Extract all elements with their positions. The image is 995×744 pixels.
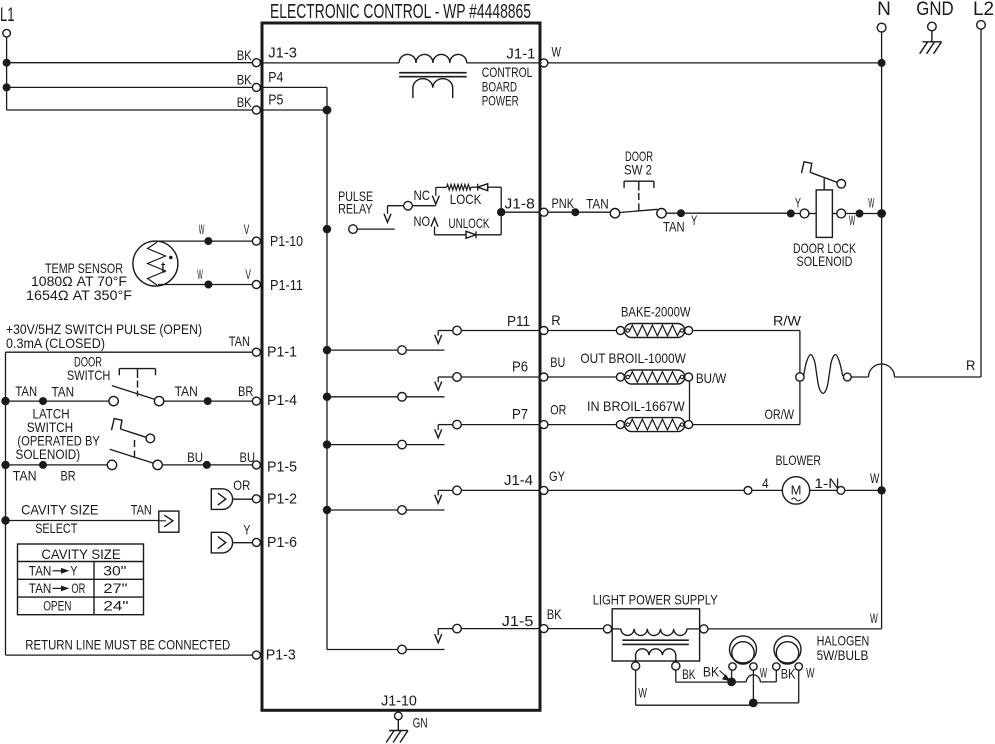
svg-text:GN: GN bbox=[413, 715, 428, 731]
svg-text:P1-1: P1-1 bbox=[267, 344, 297, 361]
svg-text:OR: OR bbox=[233, 477, 250, 493]
blower motor bbox=[752, 452, 886, 504]
pulse relay actuator arrow bbox=[384, 206, 391, 223]
terminal L1 bbox=[0, 5, 15, 37]
wire BU to out broil bbox=[548, 354, 617, 377]
svg-text:BU/W: BU/W bbox=[696, 370, 727, 386]
wire W secondary left bbox=[636, 670, 758, 707]
heating element IN BROIL-1667W bbox=[587, 398, 693, 432]
label LOCK bbox=[450, 191, 482, 207]
latch switch lever bbox=[112, 419, 155, 458]
svg-text:CAVITY SIZE: CAVITY SIZE bbox=[41, 546, 120, 562]
svg-text:SWITCH: SWITCH bbox=[67, 367, 110, 383]
door switch SW2 bracket bbox=[624, 181, 654, 210]
svg-text:RELAY: RELAY bbox=[338, 200, 373, 216]
pin J1-8 bbox=[505, 196, 548, 217]
contact NO bbox=[414, 213, 439, 235]
svg-text:P1-3: P1-3 bbox=[266, 646, 296, 663]
svg-text:W: W bbox=[197, 266, 203, 282]
label switch pulse bbox=[6, 321, 202, 351]
svg-text:OR: OR bbox=[71, 581, 85, 596]
svg-text:P1-6: P1-6 bbox=[267, 534, 297, 551]
svg-text:W: W bbox=[552, 44, 562, 60]
svg-text:J1-5: J1-5 bbox=[502, 613, 534, 630]
svg-text:30": 30" bbox=[103, 562, 126, 578]
transformer T1 core bbox=[399, 73, 467, 77]
pulse relay contact bbox=[323, 225, 395, 234]
svg-text:TAN: TAN bbox=[229, 333, 250, 349]
svg-text:BR: BR bbox=[61, 467, 76, 483]
svg-text:TAN: TAN bbox=[15, 383, 37, 399]
svg-text:BU: BU bbox=[240, 449, 256, 465]
label BK with arrow bbox=[703, 664, 731, 682]
svg-text:N: N bbox=[877, 0, 891, 20]
transformer T1 secondary bbox=[413, 79, 453, 98]
label DOOR LOCK SOLENOID bbox=[793, 240, 856, 269]
label UNLOCK bbox=[449, 215, 490, 231]
svg-text:P1-4: P1-4 bbox=[267, 392, 297, 409]
pin P6 bbox=[512, 359, 548, 382]
wire BK secondary right bbox=[676, 666, 728, 682]
resistor lock coil bbox=[447, 184, 471, 190]
svg-text:R/W: R/W bbox=[773, 313, 802, 329]
svg-text:SW 2: SW 2 bbox=[624, 161, 652, 177]
wire in broil to corner OR/W bbox=[693, 406, 800, 425]
svg-text:P1-5: P1-5 bbox=[267, 459, 297, 476]
pin J1-4 bbox=[504, 472, 548, 495]
diode unlock bbox=[466, 231, 476, 238]
wire bake to R/W corner bbox=[693, 313, 802, 331]
pin J1-1 bbox=[506, 45, 548, 67]
svg-text:L2: L2 bbox=[973, 0, 994, 20]
svg-text:V: V bbox=[244, 221, 250, 237]
door lock solenoid plunger bbox=[802, 162, 846, 190]
svg-text:V: V bbox=[245, 266, 251, 282]
label RETURN LINE bbox=[25, 636, 230, 652]
wire TAN Y after SW2 bbox=[663, 209, 791, 234]
transformer T1 primary with J1-3 line bbox=[260, 54, 542, 62]
door switch bbox=[1, 383, 253, 406]
svg-text:P1-2: P1-2 bbox=[267, 491, 297, 508]
svg-text:Y: Y bbox=[691, 212, 698, 228]
relay contact K3 to P7 bbox=[323, 420, 540, 449]
wire unlock rail bbox=[435, 216, 502, 235]
svg-text:24": 24" bbox=[103, 598, 128, 614]
wire cavity select bbox=[1, 516, 159, 524]
svg-text:BK: BK bbox=[237, 47, 253, 63]
svg-text:Y: Y bbox=[795, 195, 802, 211]
contact NC bbox=[414, 187, 440, 204]
svg-text:SELECT: SELECT bbox=[35, 520, 78, 536]
wire flexible squiggle bbox=[804, 354, 843, 393]
svg-text:OR: OR bbox=[550, 402, 566, 418]
control box ELECTRONIC CONTROL bbox=[262, 23, 540, 710]
wire bulb1 left lead bbox=[731, 670, 733, 682]
title label bbox=[270, 1, 531, 23]
svg-text:BU: BU bbox=[550, 354, 565, 370]
wire out broil down link bbox=[689, 381, 691, 421]
wire PNK bbox=[548, 195, 610, 216]
splice element common bbox=[796, 373, 804, 381]
svg-text:P1-10: P1-10 bbox=[270, 233, 303, 250]
connector arrow box Y to P1-6 bbox=[211, 522, 252, 553]
svg-text:BK: BK bbox=[682, 666, 696, 682]
light power supply transformer T2 bbox=[593, 591, 719, 670]
pin P1-11 bbox=[252, 277, 303, 294]
latch switch bbox=[1, 449, 255, 483]
svg-text:P11: P11 bbox=[507, 313, 530, 330]
door lock solenoid bbox=[787, 190, 846, 238]
wire T2 primary to N bbox=[700, 610, 882, 633]
wire return to P1-3 bbox=[6, 654, 253, 656]
ground chassis symbol GN bbox=[386, 720, 408, 743]
svg-text:BK: BK bbox=[703, 664, 720, 680]
svg-text:OPEN: OPEN bbox=[43, 599, 71, 614]
svg-text:1654Ω AT 350°F: 1654Ω AT 350°F bbox=[26, 287, 132, 303]
svg-text:TAN: TAN bbox=[586, 195, 609, 211]
door switch SW2 bbox=[610, 209, 666, 218]
svg-text:LIGHT POWER SUPPLY: LIGHT POWER SUPPLY bbox=[593, 591, 719, 607]
svg-text:CAVITY SIZE: CAVITY SIZE bbox=[21, 502, 98, 518]
svg-text:BU: BU bbox=[187, 449, 203, 465]
svg-text:J1-4: J1-4 bbox=[504, 472, 533, 489]
svg-text:W: W bbox=[868, 195, 874, 211]
svg-text:W: W bbox=[849, 212, 856, 228]
svg-text:R: R bbox=[551, 312, 560, 328]
svg-text:P1-11: P1-11 bbox=[270, 277, 303, 294]
pin P11 bbox=[507, 313, 548, 335]
pulse relay common wire bbox=[388, 201, 436, 210]
wire GN J1-10 bbox=[413, 715, 428, 731]
svg-text:R: R bbox=[966, 357, 975, 373]
svg-text:BK: BK bbox=[237, 72, 253, 88]
wire bulb2 right lead W bbox=[753, 670, 798, 703]
relay contact K5 to J1-5 bbox=[327, 624, 540, 654]
label HALOGEN 5W/BULB bbox=[817, 633, 870, 663]
wire BK chain with hump bbox=[732, 664, 815, 682]
terminal N bbox=[877, 0, 891, 32]
pin P1-5 bbox=[252, 459, 297, 476]
svg-text:W: W bbox=[806, 664, 815, 680]
wire bulb1 right lead W bbox=[752, 670, 754, 703]
svg-text:LOCK: LOCK bbox=[450, 191, 482, 207]
svg-text:RETURN LINE MUST BE CONNECTED: RETURN LINE MUST BE CONNECTED bbox=[25, 636, 230, 652]
svg-text:J1-8: J1-8 bbox=[505, 196, 535, 213]
svg-text:ELECTRONIC CONTROL - WP #44488: ELECTRONIC CONTROL - WP #4448865 bbox=[270, 1, 531, 23]
wire TAN to P1-1 bbox=[6, 333, 253, 655]
svg-text:TAN: TAN bbox=[29, 581, 52, 596]
svg-text:OR/W: OR/W bbox=[765, 406, 795, 422]
pin P5 bbox=[252, 92, 283, 114]
svg-text:OUT BROIL-1000W: OUT BROIL-1000W bbox=[580, 350, 686, 366]
wire to L2 with crossover hump bbox=[851, 357, 981, 377]
label LATCH SWITCH block bbox=[16, 406, 101, 463]
splice squiggle right bbox=[843, 373, 851, 381]
svg-text:L1: L1 bbox=[0, 5, 15, 26]
svg-text:P6: P6 bbox=[512, 359, 528, 376]
svg-text:J1-10: J1-10 bbox=[381, 692, 417, 709]
svg-text:W: W bbox=[199, 221, 205, 237]
svg-text:27": 27" bbox=[103, 580, 127, 596]
heating element BAKE-2000W bbox=[616, 304, 692, 338]
svg-text:t: t bbox=[161, 260, 166, 277]
svg-text:0.3mA (CLOSED): 0.3mA (CLOSED) bbox=[6, 335, 105, 351]
svg-text:PNK: PNK bbox=[552, 195, 575, 211]
pin P1-1 bbox=[252, 344, 297, 361]
label DOOR SWITCH bbox=[67, 354, 110, 383]
svg-text:1-N: 1-N bbox=[814, 475, 839, 491]
pin P1-4 bbox=[252, 392, 297, 409]
wire N vertical bbox=[878, 32, 886, 629]
svg-text:5W/BULB: 5W/BULB bbox=[817, 647, 869, 663]
junction J1-8 bbox=[497, 208, 540, 216]
svg-text:IN BROIL-1667W: IN BROIL-1667W bbox=[587, 398, 685, 414]
wire R to bake bbox=[548, 312, 617, 331]
junction bulb BK bbox=[727, 678, 736, 687]
svg-text:TAN: TAN bbox=[52, 383, 75, 399]
wire W J1-1 to N bbox=[548, 44, 882, 63]
heating element OUT BROIL-1000W bbox=[580, 350, 692, 384]
cavity size table bbox=[18, 544, 144, 615]
halogen bulb 2 bbox=[773, 636, 803, 670]
svg-text:W: W bbox=[870, 610, 878, 626]
connector arrow box OR to P1-2 bbox=[211, 477, 252, 509]
relay contact K1 to P11 bbox=[323, 326, 540, 354]
svg-text:TAN: TAN bbox=[29, 563, 52, 578]
svg-text:J1-1: J1-1 bbox=[506, 45, 535, 62]
terminal GND bbox=[916, 0, 953, 42]
svg-text:Y: Y bbox=[70, 563, 77, 578]
svg-text:BR: BR bbox=[238, 383, 253, 399]
wire L1 vertical bbox=[6, 37, 8, 110]
diode lock bbox=[478, 184, 488, 191]
label TEMP SENSOR block bbox=[26, 260, 132, 303]
pin J1-10 bbox=[381, 692, 417, 719]
svg-text:NC: NC bbox=[414, 187, 431, 203]
label CONTROL BOARD POWER bbox=[482, 64, 533, 108]
door switch bracket bbox=[119, 369, 155, 397]
svg-text:4: 4 bbox=[762, 475, 769, 491]
terminal L2 bbox=[973, 0, 994, 29]
pin P1-3 bbox=[252, 646, 295, 663]
svg-text:NO: NO bbox=[414, 213, 431, 229]
pin P1-2 bbox=[252, 491, 297, 508]
svg-text:P4: P4 bbox=[268, 69, 283, 86]
wire internal bus from P4 bbox=[260, 87, 327, 649]
label PULSE RELAY bbox=[338, 188, 373, 216]
pin J1-3 bbox=[252, 44, 297, 66]
relay contact K4 to J1-4 bbox=[323, 486, 540, 514]
svg-text:W: W bbox=[638, 685, 647, 701]
svg-text:M: M bbox=[791, 483, 802, 498]
svg-text:TAN: TAN bbox=[663, 218, 685, 234]
relay contact K2 to P6 bbox=[323, 373, 540, 401]
ground chassis symbol GND bbox=[920, 42, 942, 54]
wire BK J1-5 bbox=[547, 606, 604, 629]
svg-text:GND: GND bbox=[916, 0, 953, 20]
svg-text:BK: BK bbox=[547, 606, 562, 622]
cavity select arrow box bbox=[159, 511, 179, 532]
svg-text:GY: GY bbox=[549, 468, 566, 484]
svg-text:W: W bbox=[760, 664, 768, 680]
pin P1-10 bbox=[252, 233, 303, 250]
temp sensor bbox=[133, 241, 178, 286]
wire OR to in broil bbox=[548, 402, 617, 425]
wire W V to P1-10 bbox=[156, 221, 252, 245]
svg-text:BK: BK bbox=[237, 94, 253, 110]
svg-text:BK: BK bbox=[781, 665, 796, 681]
wire W solenoid to N bbox=[846, 195, 886, 229]
halogen bulb 1 bbox=[729, 636, 757, 670]
wire element common vertical bbox=[799, 331, 801, 425]
svg-text:POWER: POWER bbox=[482, 92, 519, 108]
wire W V to P1-11 bbox=[158, 266, 252, 289]
label BU/W bbox=[696, 370, 727, 386]
svg-text:BAKE-2000W: BAKE-2000W bbox=[621, 304, 691, 320]
svg-text:TAN: TAN bbox=[13, 467, 37, 483]
wire lock rail bbox=[436, 187, 501, 208]
pin P7 bbox=[512, 406, 548, 429]
label CAVITY SIZE SELECT bbox=[21, 502, 152, 537]
pin J1-5 bbox=[502, 613, 548, 632]
svg-text:SOLENOID: SOLENOID bbox=[797, 253, 853, 269]
svg-text:W: W bbox=[870, 470, 880, 486]
pin P4 bbox=[252, 69, 283, 91]
svg-text:SOLENOID): SOLENOID) bbox=[16, 446, 81, 462]
svg-text:TAN: TAN bbox=[175, 383, 198, 399]
wire BK P4 row bbox=[3, 72, 253, 92]
wire L2 vertical bbox=[980, 29, 982, 377]
svg-text:UNLOCK: UNLOCK bbox=[449, 215, 490, 231]
svg-text:BLOWER: BLOWER bbox=[776, 452, 822, 468]
svg-text:P7: P7 bbox=[512, 406, 528, 423]
svg-text:Y: Y bbox=[243, 522, 250, 538]
pin P1-6 bbox=[252, 534, 297, 551]
svg-text:J1-3: J1-3 bbox=[268, 44, 297, 61]
wire BK J1-3 row bbox=[3, 47, 253, 67]
wire GY J1-4 bbox=[548, 468, 752, 494]
svg-text:TAN: TAN bbox=[131, 502, 152, 518]
label DOOR SW 2 bbox=[624, 148, 653, 178]
svg-text:P5: P5 bbox=[268, 92, 283, 109]
wire P5 to bus bbox=[260, 106, 331, 115]
wire BK P5 row bbox=[7, 94, 253, 110]
